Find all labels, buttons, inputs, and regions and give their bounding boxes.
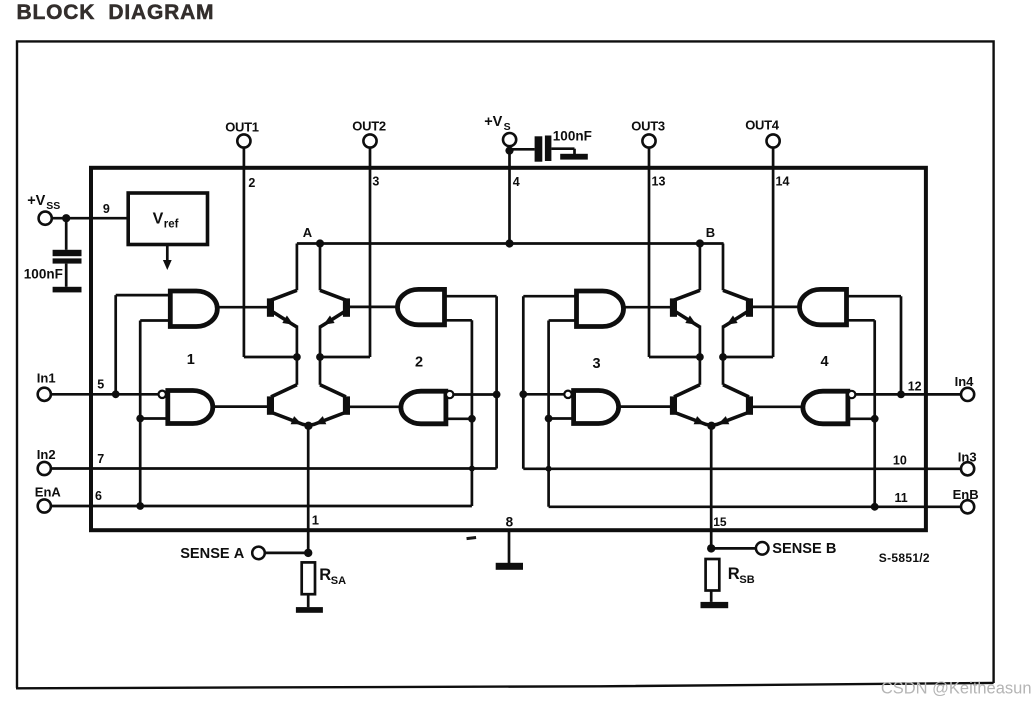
svg-text:2: 2	[248, 176, 255, 190]
svg-text:OUT1: OUT1	[225, 119, 259, 134]
svg-text:100nF: 100nF	[24, 267, 63, 282]
svg-text:9: 9	[103, 202, 110, 216]
svg-text:15: 15	[713, 515, 727, 529]
svg-text:1: 1	[187, 352, 195, 368]
svg-text:+V: +V	[484, 114, 502, 130]
svg-text:In1: In1	[37, 371, 56, 386]
svg-text:In4: In4	[955, 374, 975, 389]
svg-text:OUT2: OUT2	[352, 118, 386, 133]
svg-text:4: 4	[821, 354, 829, 370]
svg-text:In3: In3	[958, 450, 977, 465]
svg-text:CSDN @Keitheasun: CSDN @Keitheasun	[881, 680, 1032, 698]
svg-text:7: 7	[97, 452, 104, 466]
svg-text:10: 10	[893, 454, 907, 468]
svg-text:13: 13	[652, 175, 666, 189]
svg-text:1: 1	[312, 513, 319, 528]
svg-text:14: 14	[776, 175, 790, 189]
svg-text:In2: In2	[37, 447, 56, 462]
svg-text:S: S	[504, 121, 511, 133]
svg-text:6: 6	[95, 489, 102, 503]
svg-text:SS: SS	[46, 200, 60, 212]
svg-text:SENSE B: SENSE B	[772, 541, 836, 557]
svg-text:OUT4: OUT4	[745, 117, 780, 132]
svg-text:EnA: EnA	[35, 484, 62, 499]
svg-text:8: 8	[506, 515, 514, 530]
svg-text:12: 12	[908, 380, 922, 394]
svg-text:S-5851/2: S-5851/2	[879, 551, 930, 565]
svg-text:ref: ref	[164, 218, 179, 230]
svg-text:+V: +V	[27, 193, 45, 209]
svg-text:V: V	[153, 210, 164, 227]
svg-text:SB: SB	[739, 574, 754, 586]
svg-text:OUT3: OUT3	[631, 118, 665, 133]
svg-text:A: A	[303, 225, 313, 240]
svg-text:BLOCK DIAGRAM: BLOCK DIAGRAM	[17, 1, 215, 24]
svg-text:B: B	[706, 225, 715, 240]
svg-text:100nF: 100nF	[553, 128, 592, 143]
svg-text:2: 2	[415, 355, 423, 371]
svg-text:SENSE A: SENSE A	[180, 546, 245, 562]
svg-text:EnB: EnB	[953, 487, 979, 502]
svg-text:SA: SA	[331, 575, 346, 587]
svg-text:R: R	[728, 565, 740, 583]
svg-text:R: R	[319, 566, 331, 584]
svg-text:5: 5	[97, 378, 104, 392]
svg-text:3: 3	[593, 356, 601, 372]
svg-text:4: 4	[513, 175, 520, 189]
svg-text:3: 3	[372, 175, 379, 189]
svg-text:11: 11	[895, 491, 908, 505]
